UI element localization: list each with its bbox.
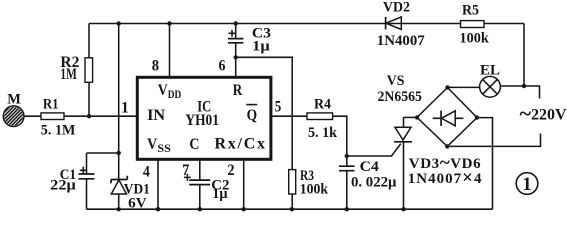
svg-text:1: 1 [121,100,129,117]
svg-text:7: 7 [182,162,189,179]
svg-text:VS: VS [387,73,405,89]
junction supply rail / C3 [234,21,238,25]
svg-text:DD: DD [168,89,182,101]
junction ground rail / C2 [198,207,202,211]
wire M to R1 to IC pin 1 [24,115,138,117]
svg-text:Rx/Cx: Rx/Cx [215,136,266,153]
junction EL / mains / supply feed [522,84,526,88]
wire top supply rail [89,23,524,25]
junction ground rail / C4 [345,207,349,211]
bridge left corner node [415,115,419,119]
wire C1 leads [86,153,88,209]
wire bridge top corner to EL [448,86,480,88]
junction supply rail / pin 8 [167,21,171,25]
svg-text:2: 2 [227,162,234,179]
svg-text:8: 8 [152,58,159,75]
svg-text:R4: R4 [314,97,331,113]
svg-text:6: 6 [219,58,226,75]
svg-text:100k: 100k [460,31,490,47]
svg-text:R: R [233,82,243,99]
wire pin 2 to ground [243,161,245,210]
capacitor C4 [339,159,397,190]
svg-text:5: 5 [275,99,282,116]
svg-text:1N4007×4: 1N4007×4 [408,168,483,189]
svg-text:1M: 1M [60,66,77,83]
junction C1 / VD1 [117,151,121,155]
bridge inner diode symbol [433,117,464,119]
junction ground rail / pin 2 [242,207,246,211]
resistor R3 [289,168,329,198]
junction ground rail / R3 [290,207,294,211]
capacitor C3 [228,26,271,55]
svg-text:5. 1k: 5. 1k [308,125,338,141]
svg-text:6V: 6V [128,195,147,211]
IC U1 YH01 box [137,77,271,159]
svg-text:Q: Q [247,107,258,124]
wire C3 node across to R3 [236,57,293,209]
bridge right corner node [475,115,479,119]
wire pin 7 / C2 leads [199,161,201,210]
svg-text:R5: R5 [462,3,479,19]
zener diode VD1 [111,176,150,212]
svg-text:0. 022μ: 0. 022μ [351,174,397,190]
wire EL to mains upper terminal [500,86,539,99]
bridge bottom corner node [445,144,449,148]
resistor R4 [307,97,338,142]
wire VS anode to bridge left corner [404,116,418,118]
junction C3 / pin 6 / R3 link [234,55,238,59]
svg-text:5. 1M: 5. 1M [41,123,76,139]
junction R2 / IN line [87,114,91,118]
junction ground rail / VD1 [117,207,121,211]
svg-text:V: V [158,82,168,99]
bridge top corner node [445,85,449,89]
lamp EL [480,63,501,98]
svg-text:1N4007: 1N4007 [377,33,425,49]
wire R2 branch vertical [88,24,90,117]
junction ground rail / VS cathode [401,207,405,211]
resistor R5 [460,3,490,47]
svg-text:100k: 100k [300,181,329,197]
wire bottom ground rail [87,208,493,210]
wire top rail down to EL node [523,24,525,87]
wire C1 horizontal link [87,152,119,154]
svg-text:1μ: 1μ [212,186,228,202]
svg-text:C: C [189,136,199,153]
svg-text:22μ: 22μ [50,178,76,194]
wire pin 5 through R4 to C4 node [272,116,347,156]
wire C4 leads [346,156,348,209]
svg-text:M: M [7,91,21,107]
wire bridge right corner to ground rail [477,118,493,210]
wire VD1 leads [118,153,120,209]
svg-text:1: 1 [522,175,531,195]
capacitor C1 [50,167,94,194]
junction ground rail / pin 4 [156,207,160,211]
svg-text:R1: R1 [43,97,59,113]
capacitor C2 [184,174,230,202]
wire gate of VS from C4 node [347,144,401,156]
svg-text:YH01: YH01 [185,112,219,129]
wire bridge bottom corner to mains lower terminal [447,134,540,147]
diode VD2 [377,0,425,49]
wire C3 / pin 6 vertical [235,24,237,78]
svg-text:V: V [147,136,157,153]
junction supply rail / C1-VD1 branch [117,21,121,25]
svg-text:4: 4 [143,163,150,180]
resistor R1 [41,97,76,139]
svg-text:C4: C4 [360,159,380,175]
svg-text:2N6565: 2N6565 [378,89,422,105]
wire VS leads [403,117,405,209]
thyristor VS [378,73,422,142]
svg-text:SS: SS [157,143,171,155]
wire pin 8 to supply rail [169,24,171,78]
resistor R2 [60,54,92,83]
junction R4 / C4 / gate [345,154,349,158]
bridge rectifier VD3-VD6 [408,88,483,189]
svg-text:1μ: 1μ [252,38,270,54]
svg-text:VD2: VD2 [383,0,410,15]
wire pin 4 to ground [157,161,159,210]
transducer M [0,91,37,129]
wire VDD decoupling branch vertical [118,24,120,154]
figure number 1 in circle [516,173,538,196]
svg-text:IN: IN [147,107,165,124]
svg-text:EL: EL [480,63,500,79]
